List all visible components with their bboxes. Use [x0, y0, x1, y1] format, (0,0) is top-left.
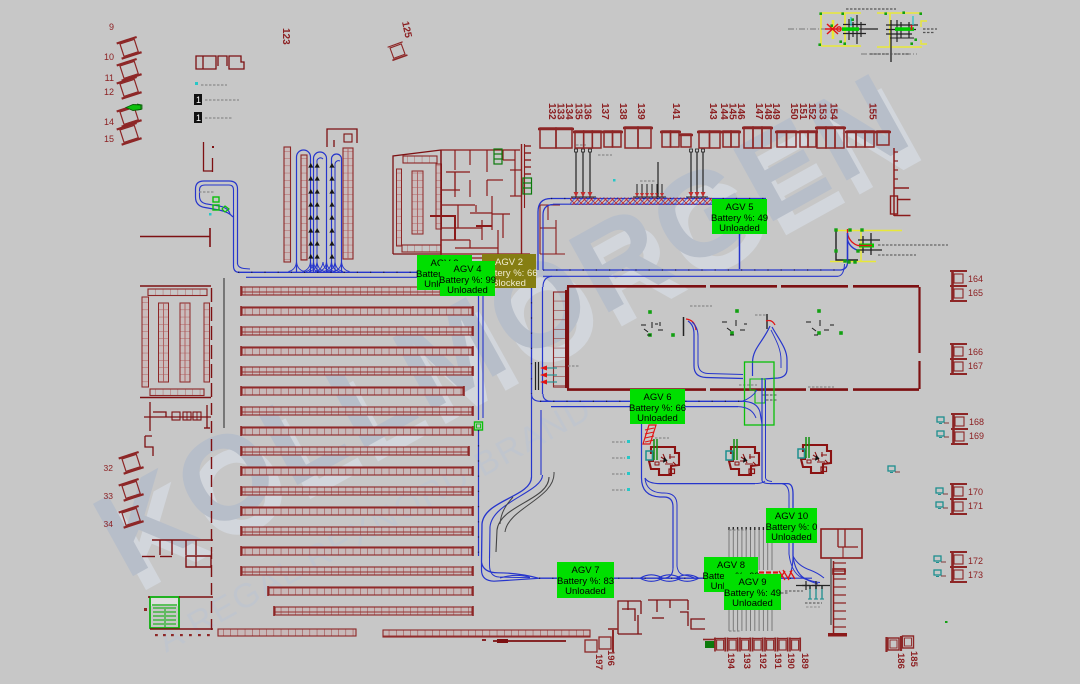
racks 196/197 — [585, 640, 597, 652]
green stepped mini rect — [750, 379, 765, 403]
rack column B — [301, 155, 307, 260]
svg-text:AGV 7: AGV 7 — [572, 565, 600, 576]
gray divider line — [223, 278, 225, 428]
gray parallel curves — [496, 477, 549, 552]
machine 1 — [646, 439, 679, 475]
green dots at station — [834, 228, 837, 231]
svg-text:190: 190 — [785, 653, 796, 669]
building interior V curves — [766, 314, 768, 329]
posts group mid (short) — [636, 184, 638, 197]
junction y394-410 — [532, 394, 541, 401]
svg-text:136: 136 — [582, 103, 593, 120]
green rack block 1 — [494, 149, 502, 164]
green stair block — [151, 598, 178, 606]
left block left rack column — [142, 297, 149, 387]
hook vehicle markers — [213, 197, 219, 202]
svg-text:146: 146 — [735, 103, 746, 120]
dock detail left inside — [535, 362, 537, 390]
red curve + line — [848, 234, 873, 246]
building A left rack column — [397, 169, 402, 246]
vertical x673 joins bottom path — [663, 568, 673, 578]
svg-text:152: 152 — [806, 103, 817, 120]
svg-text:189: 189 — [799, 653, 810, 669]
top-left office structure — [196, 56, 216, 69]
building A mid rack column — [412, 171, 423, 234]
yellow detail station 1 — [821, 13, 861, 46]
racks 170/171 — [950, 483, 967, 515]
svg-text:12: 12 — [104, 87, 114, 97]
station1 black rig — [843, 24, 866, 26]
building B inner thick walls — [430, 216, 455, 240]
svg-text:9: 9 — [109, 22, 114, 32]
svg-text:AGV 8: AGV 8 — [717, 560, 745, 571]
svg-text:AGV 6: AGV 6 — [644, 392, 672, 403]
svg-text:15: 15 — [104, 134, 114, 144]
svg-text:AGV 2: AGV 2 — [495, 257, 523, 268]
svg-text:AGV 10: AGV 10 — [775, 511, 808, 522]
left block inner rack 3 — [204, 303, 210, 382]
junction at y272-287 — [522, 277, 532, 287]
vertical path right of rack field — [478, 282, 480, 420]
main horizontal path y269-276 right part — [543, 269, 841, 271]
racks 166/167 — [950, 343, 967, 375]
svg-text:165: 165 — [968, 288, 983, 298]
svg-text:196: 196 — [605, 650, 616, 666]
centerline 2 + text — [861, 53, 917, 55]
machine1 down curve — [642, 478, 674, 568]
bottom path y578 — [539, 577, 795, 579]
AGV10 fan — [788, 556, 793, 578]
machine micro marks cluster 1 — [641, 322, 663, 335]
svg-text:141: 141 — [670, 103, 681, 120]
green rack block 2 — [523, 178, 532, 194]
svg-text:169: 169 — [969, 431, 984, 441]
comb upper group — [728, 527, 730, 570]
legend box 1 — [194, 94, 202, 105]
red scribble — [779, 570, 795, 580]
svg-text:1: 1 — [196, 113, 201, 123]
red walls near green block — [148, 596, 150, 598]
centerline — [788, 28, 846, 30]
svg-text:197: 197 — [593, 654, 604, 670]
S curve down-left — [482, 477, 532, 562]
svg-text:11: 11 — [105, 73, 114, 83]
red hatched flag — [643, 425, 656, 444]
AGV 10 label — [766, 508, 817, 543]
AGV6 path right curves — [742, 401, 762, 424]
rack column A — [284, 147, 291, 262]
green squares inside building — [648, 310, 652, 314]
rooms below left block — [149, 402, 151, 431]
step walls — [145, 436, 153, 456]
cyan dot column — [627, 440, 630, 443]
roof structure above serpentine — [327, 129, 357, 147]
teal trees — [809, 586, 811, 599]
building B room maze — [441, 149, 520, 151]
svg-text:167: 167 — [968, 361, 983, 371]
AGV 4 label — [440, 261, 495, 296]
bottom-left capsule — [482, 562, 540, 581]
svg-text:1: 1 — [196, 95, 201, 105]
svg-text:10: 10 — [104, 52, 114, 62]
y272 path dots — [238, 271, 532, 273]
svg-text:143: 143 — [707, 103, 718, 120]
left block bottom wall — [140, 397, 211, 399]
machine 2 — [726, 439, 759, 475]
machine 3 — [798, 437, 831, 473]
svg-text:Unloaded: Unloaded — [719, 223, 760, 234]
wall piece — [204, 142, 214, 171]
blue hook loop top-left — [196, 181, 238, 217]
left block top rack strip — [148, 289, 207, 296]
big building top wall — [567, 285, 706, 288]
svg-text:186: 186 — [895, 653, 906, 669]
cyan dot + legend text — [195, 82, 198, 85]
svg-text:170: 170 — [968, 487, 983, 497]
AGV 6 label — [630, 389, 685, 424]
svg-text:155: 155 — [867, 103, 878, 120]
central vertical pair x531/543 — [531, 287, 533, 394]
station1 cyan/flag — [850, 17, 852, 26]
small box right — [691, 619, 705, 629]
big rack field rows — [242, 287, 472, 295]
mid-right yellow station — [836, 230, 902, 232]
mid-left wall cluster — [152, 539, 213, 541]
svg-text:185: 185 — [908, 651, 919, 668]
svg-text:171: 171 — [968, 501, 983, 511]
left block inner rack 1 — [159, 303, 169, 382]
green dots station2 — [884, 12, 887, 15]
svg-text:191: 191 — [772, 653, 783, 670]
racks 185/186 — [888, 638, 899, 650]
big building bottom wall — [567, 388, 706, 391]
svg-text:14: 14 — [104, 117, 114, 127]
path y270 curves up into station — [841, 262, 848, 270]
right wall ladder structure — [893, 148, 895, 216]
svg-text:34: 34 — [104, 519, 114, 529]
svg-text:Unloaded: Unloaded — [447, 285, 488, 296]
left block right wall (dashed) — [211, 288, 213, 397]
big building right wall — [918, 287, 920, 353]
tilted square icon at 125 — [388, 42, 408, 61]
building A right wall rack — [436, 164, 442, 229]
rack column left of building — [554, 292, 567, 387]
svg-text:33: 33 — [104, 491, 114, 501]
svg-text:172: 172 — [968, 556, 983, 566]
svg-text:Unloaded: Unloaded — [565, 586, 606, 597]
blue vertical through green zone — [761, 378, 763, 480]
wall T — [140, 236, 210, 238]
posts group 1 — [575, 152, 577, 197]
annex rooms — [539, 205, 541, 254]
AGV 2 label — [482, 254, 536, 288]
rack column C (double) — [343, 148, 353, 259]
station black bracket — [836, 230, 858, 260]
AGV 5 label — [712, 199, 767, 234]
AGV6 horizontal path — [540, 400, 742, 402]
svg-text:164: 164 — [968, 274, 983, 284]
machine micro marks cluster 2 — [722, 320, 747, 335]
svg-text:168: 168 — [969, 417, 984, 427]
curve down to AGV10 vertical — [788, 484, 793, 556]
AGV 8 label — [704, 557, 758, 592]
dashed wall x211 lower — [211, 403, 213, 630]
racks 164/165 — [950, 270, 967, 302]
left block inner rack 2 — [180, 303, 190, 382]
mid rooms below building B — [454, 172, 456, 197]
left block top wall — [140, 285, 211, 287]
station green bar — [859, 244, 874, 248]
station micro text — [878, 244, 948, 246]
small yellow brackets — [921, 21, 927, 27]
serpentine blue loops — [297, 150, 311, 272]
bottom offset rack strips — [218, 629, 356, 636]
svg-text:154: 154 — [828, 103, 839, 120]
top path corner down — [543, 205, 553, 271]
svg-text:193: 193 — [741, 653, 752, 669]
vertical continues below marker — [478, 430, 480, 556]
svg-text:192: 192 — [757, 653, 768, 669]
dots below — [155, 634, 158, 636]
tiny texts in building — [690, 305, 712, 307]
left block bottom rack strip — [150, 389, 204, 396]
green zone rectangle — [745, 362, 775, 425]
svg-text:AGV 9: AGV 9 — [739, 577, 767, 588]
red dashes on path near AGV8 — [759, 571, 764, 573]
red mover symbol — [825, 24, 841, 34]
building A walls — [393, 150, 441, 254]
legend box 2 — [194, 112, 202, 123]
micro text top — [846, 8, 896, 10]
blue curves at station — [847, 233, 849, 262]
tilted racks 10-15 — [117, 37, 142, 59]
serpentine inner lane lines — [317, 158, 323, 272]
charger box — [821, 529, 862, 558]
svg-text:173: 173 — [968, 570, 983, 580]
vehicle marker green square — [475, 422, 483, 430]
tiny green dot — [945, 621, 948, 623]
AGV 9 label — [724, 574, 781, 610]
top rack icons row — [538, 128, 574, 130]
passing ovals — [640, 575, 663, 582]
teal monitors 168/169 — [937, 417, 949, 424]
building A top rack strip — [403, 156, 437, 163]
svg-text:166: 166 — [968, 347, 983, 357]
dock wall with fingers — [521, 144, 523, 260]
svg-text:137: 137 — [599, 103, 610, 120]
AGV 7 label — [557, 562, 614, 598]
svg-text:149: 149 — [770, 103, 781, 120]
AGV 1 green arrow marker — [126, 105, 141, 111]
gray pillar line — [830, 558, 832, 625]
green dots station1 — [819, 12, 822, 15]
cyan mark near conveyor — [613, 179, 616, 182]
svg-text:Unloaded: Unloaded — [771, 532, 812, 543]
svg-text:139: 139 — [635, 103, 646, 120]
racks 172/173 — [950, 551, 967, 583]
svg-text:Unloaded: Unloaded — [637, 413, 678, 424]
building A bottom rack strip — [402, 245, 441, 252]
svg-text:AGV 5: AGV 5 — [726, 202, 754, 213]
conveyor crosshatch band — [570, 198, 712, 206]
big building left wall — [567, 287, 569, 389]
svg-text:138: 138 — [617, 103, 628, 120]
thick line below strips — [493, 640, 566, 642]
cyan mark — [632, 410, 635, 413]
machine micro marks cluster 3 — [806, 320, 834, 335]
bottom racks row (189-194) — [705, 641, 715, 648]
svg-text:123: 123 — [280, 28, 291, 45]
bottom rooms — [618, 601, 641, 634]
serpentine bottom flares — [289, 262, 297, 272]
main horizontal path y272 — [238, 271, 532, 273]
posts group 2 — [690, 152, 692, 197]
comb lower group — [728, 584, 730, 631]
blue vertical to machine 1 — [641, 408, 643, 478]
machine row horizontal y483 — [645, 478, 755, 484]
hook vertical to serpentine — [233, 215, 235, 266]
racks 168/169 — [951, 413, 968, 445]
building interior blue J curve — [683, 317, 685, 336]
serpentine arrows — [308, 163, 313, 168]
AGV 5 pointer line — [739, 234, 741, 269]
station2 black rig — [886, 24, 918, 26]
svg-text:134: 134 — [563, 103, 574, 120]
AGV 3 label — [417, 255, 472, 290]
svg-text:32: 32 — [104, 463, 114, 473]
right red ladder — [833, 561, 835, 636]
svg-text:Unloaded: Unloaded — [732, 598, 773, 609]
fan end marks — [796, 585, 830, 587]
lone teal monitor — [888, 466, 900, 473]
yellow detail station 2 — [877, 13, 922, 47]
top horizontal path y198-204 — [551, 198, 766, 200]
svg-text:153: 153 — [817, 103, 828, 120]
svg-text:194: 194 — [725, 653, 736, 670]
svg-text:Blocked: Blocked — [492, 278, 526, 289]
svg-text:AGV 4: AGV 4 — [454, 264, 482, 275]
